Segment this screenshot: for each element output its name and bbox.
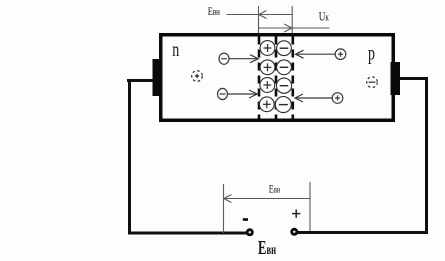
svg-text:p: p bbox=[368, 42, 375, 64]
svg-text:Eвн: Eвн bbox=[208, 6, 220, 19]
svg-text:Uк: Uк bbox=[319, 10, 330, 24]
svg-text:Eвн: Eвн bbox=[269, 183, 280, 196]
svg-text:n: n bbox=[172, 38, 179, 60]
svg-text:Eвн: Eвн bbox=[258, 236, 276, 259]
